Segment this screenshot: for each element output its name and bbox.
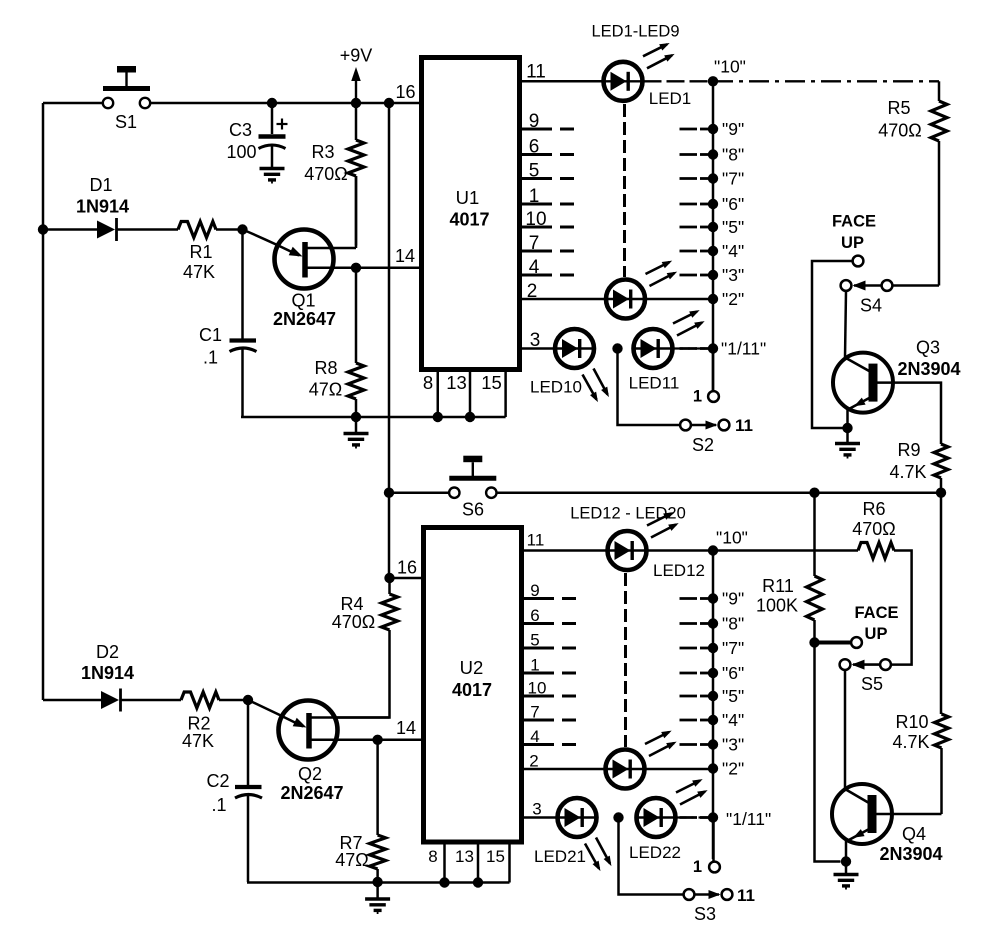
resistor R3 — [304, 103, 364, 246]
node die1 "9" — [680, 119, 745, 139]
svg-text:4017: 4017 — [449, 210, 489, 230]
switch S4 — [841, 280, 893, 315]
wire die2 output bus — [712, 551, 715, 860]
svg-text:LED1: LED1 — [649, 89, 692, 108]
pin U2-6 stub — [522, 606, 577, 625]
svg-text:S6: S6 — [462, 500, 484, 520]
wire LED22 to bus — [677, 816, 714, 818]
svg-text:R4: R4 — [340, 594, 363, 614]
svg-text:47Ω: 47Ω — [335, 850, 368, 870]
LED LED2 — [606, 280, 645, 319]
wire die1 ground rail — [241, 416, 506, 419]
pin U1-9 stub — [520, 111, 575, 132]
svg-text:1: 1 — [529, 186, 540, 207]
resistor R4 — [310, 578, 398, 718]
svg-text:R9: R9 — [897, 440, 920, 460]
svg-text:5: 5 — [530, 631, 539, 650]
LED LED21 — [558, 798, 597, 837]
svg-text:R1: R1 — [189, 242, 212, 262]
IC U1 4017 body — [422, 58, 520, 370]
svg-text:"10": "10" — [716, 528, 748, 548]
terminal 1 die1 — [693, 388, 719, 406]
wire "10" die2 to R6 — [713, 549, 858, 552]
pin U2-11 wire — [522, 531, 607, 551]
node die2 "4" — [680, 710, 745, 730]
label LED10 — [530, 378, 582, 397]
wire bus to terminal 1 die2 — [712, 818, 715, 862]
pin U2-8 — [428, 842, 444, 883]
node die2 "7" — [680, 638, 745, 658]
svg-text:"9": "9" — [722, 589, 744, 609]
node die2 "5" — [680, 686, 745, 706]
svg-text:13: 13 — [446, 372, 467, 393]
terminal 1 die2 — [693, 858, 720, 876]
svg-text:11: 11 — [737, 886, 755, 905]
wire top rail left segment — [43, 102, 104, 105]
diode D1 — [43, 175, 178, 241]
node die1 "2" — [708, 289, 744, 309]
svg-text:6: 6 — [530, 606, 539, 625]
LED12 light arrows — [647, 512, 679, 537]
resistor R6 — [852, 499, 896, 559]
svg-text:2N2647: 2N2647 — [280, 783, 343, 803]
node branch to lower section — [384, 98, 394, 108]
svg-text:"1/11": "1/11" — [721, 339, 766, 359]
wire LED2 to bus — [646, 298, 713, 301]
wire Q3 collector — [878, 383, 942, 444]
svg-text:7: 7 — [530, 703, 539, 722]
dashed wire LED1 to LED2 — [623, 104, 626, 277]
terminal FACE UP die2 — [815, 604, 899, 648]
svg-text:10: 10 — [528, 679, 547, 698]
resistor R1 — [178, 222, 243, 283]
svg-text:4.7K: 4.7K — [889, 462, 926, 482]
svg-text:+9V: +9V — [340, 46, 373, 66]
resistor R11 — [756, 493, 823, 643]
LED13 light arrows — [645, 731, 677, 756]
svg-text:Q4: Q4 — [902, 824, 926, 844]
node LED10/LED11 — [612, 343, 622, 353]
terminal FACE UP die1 — [832, 213, 876, 267]
svg-text:LED10: LED10 — [530, 378, 582, 397]
capacitor C1 — [199, 230, 257, 418]
pin U2-2 wire — [522, 752, 605, 771]
svg-text:4.7K: 4.7K — [892, 732, 929, 752]
wire die1 output bus — [712, 81, 715, 391]
svg-text:"5": "5" — [722, 217, 744, 237]
LED LED10 — [555, 329, 594, 368]
wire S4 to Q3 base — [845, 291, 846, 358]
wire die2 ground rail — [247, 881, 510, 884]
svg-text:C2: C2 — [206, 771, 229, 791]
node die2 "2" — [708, 759, 744, 779]
node die1 "8" — [680, 145, 745, 165]
switch S5 — [840, 659, 891, 694]
wire left bus vertical — [42, 103, 45, 700]
label LED12 — [653, 561, 705, 580]
pin U2-9 stub — [522, 581, 577, 600]
svg-text:"1/11": "1/11" — [726, 809, 771, 829]
svg-text:C3: C3 — [229, 120, 252, 140]
node R11 tap — [809, 488, 819, 498]
svg-text:1: 1 — [693, 858, 702, 876]
node left bus / D1 — [38, 224, 48, 234]
svg-text:11: 11 — [526, 62, 546, 83]
label LED1-LED9 — [591, 23, 679, 41]
svg-text:"4": "4" — [722, 710, 744, 730]
wire S5 to Q4 base — [844, 670, 847, 789]
node branch S6 — [384, 488, 394, 498]
node die2 "3" — [680, 735, 745, 755]
svg-text:"9": "9" — [722, 119, 744, 139]
pin U1-16 label — [395, 82, 415, 102]
svg-text:16: 16 — [395, 82, 415, 102]
svg-text:10: 10 — [525, 209, 546, 230]
svg-text:S5: S5 — [861, 674, 883, 694]
pin U1-4 stub — [520, 257, 575, 278]
svg-text:11: 11 — [527, 531, 545, 550]
svg-text:"2": "2" — [722, 289, 744, 309]
svg-text:LED22: LED22 — [629, 843, 681, 862]
capacitor C2 — [206, 700, 262, 882]
svg-text:8: 8 — [423, 372, 433, 393]
pin U2-3 wire — [522, 800, 557, 819]
svg-text:14: 14 — [395, 246, 415, 266]
svg-text:"10": "10" — [714, 57, 746, 77]
svg-text:"6": "6" — [722, 194, 744, 214]
svg-text:8: 8 — [428, 847, 437, 866]
node die2 "1/11" — [680, 809, 772, 829]
node die1 "10" — [708, 57, 746, 87]
node R7 ground rail — [372, 877, 382, 887]
pin U2-13 — [455, 842, 478, 883]
svg-text:"4": "4" — [722, 241, 744, 261]
svg-text:R11: R11 — [762, 576, 794, 596]
wire Q4 collector — [877, 813, 942, 816]
svg-text:UP: UP — [865, 625, 888, 643]
svg-text:D1: D1 — [89, 175, 112, 195]
node Q3 emitter — [842, 423, 852, 433]
wire FACE UP to Q3 emitter — [812, 261, 853, 428]
svg-text:S2: S2 — [692, 435, 714, 455]
svg-text:UP: UP — [841, 234, 864, 252]
switch S2 — [680, 416, 753, 455]
node Q1 base2 / R8 / U1 pin14 — [351, 246, 415, 273]
LED LED22 — [637, 798, 676, 837]
node die2 "8" — [680, 614, 745, 634]
node R1 / C1 / Q1 emitter — [237, 224, 247, 234]
resistor R9 — [889, 440, 948, 493]
svg-text:D2: D2 — [96, 642, 119, 662]
node pin13 rail — [465, 412, 475, 422]
label LED22 — [629, 843, 681, 862]
LED LED11 — [634, 329, 673, 368]
svg-text:.1: .1 — [203, 348, 218, 368]
svg-text:4017: 4017 — [452, 680, 492, 700]
svg-text:LED1-LED9: LED1-LED9 — [591, 23, 679, 41]
node die2 "9" — [680, 589, 745, 609]
resistor R10 — [892, 493, 948, 814]
pin U1-1 stub — [520, 186, 575, 207]
node R11 bottom — [809, 637, 819, 647]
LED21 light arrows — [585, 838, 611, 872]
pin U1-8 — [423, 370, 438, 418]
node R2 / C2 / Q2 emitter — [243, 695, 253, 705]
LED LED13 — [606, 750, 645, 789]
node pin8 rail — [433, 412, 443, 422]
svg-text:100K: 100K — [756, 596, 798, 616]
pin U2-4 stub — [522, 727, 577, 746]
pin U2-10 stub — [522, 679, 577, 698]
svg-text:Q3: Q3 — [916, 338, 940, 358]
svg-text:3: 3 — [532, 800, 541, 819]
node die2 "6" — [680, 663, 745, 683]
svg-text:470Ω: 470Ω — [332, 612, 376, 632]
wire "10" to R5 dash-dot — [713, 80, 939, 82]
wire LED12 to bus — [648, 549, 714, 552]
svg-text:LED12: LED12 — [653, 561, 705, 580]
label LED12-LED20 — [570, 505, 686, 523]
transistor Q2 2N2647 — [248, 700, 424, 803]
switch S3 — [684, 886, 755, 924]
svg-text:47K: 47K — [182, 731, 214, 751]
svg-text:15: 15 — [481, 372, 502, 393]
node pin8 rail die2 — [439, 877, 449, 887]
svg-text:2: 2 — [529, 752, 538, 771]
ground Q4 — [834, 862, 859, 890]
wire R11 to Q4 emitter — [815, 643, 841, 862]
LED LED1 — [604, 62, 643, 101]
svg-text:Q1: Q1 — [291, 291, 315, 311]
wire LED13 to bus — [646, 768, 714, 771]
wire LED1 to bus — [644, 80, 714, 82]
LED11 light arrows — [673, 310, 705, 335]
pin U2-5 stub — [522, 631, 577, 650]
node die1 "1/11" — [680, 339, 767, 359]
svg-text:47Ω: 47Ω — [309, 380, 342, 400]
svg-text:47K: 47K — [183, 262, 215, 282]
ground die1 — [344, 417, 369, 449]
svg-text:1N914: 1N914 — [81, 663, 134, 683]
svg-text:100: 100 — [226, 142, 256, 162]
svg-text:2N3904: 2N3904 — [879, 844, 942, 864]
svg-text:R8: R8 — [314, 358, 337, 378]
svg-text:4: 4 — [529, 257, 540, 278]
node Q2 base2 / R7 / U2 pin14 — [372, 718, 416, 745]
svg-text:1: 1 — [693, 388, 702, 406]
node LED21/LED22 — [613, 812, 623, 822]
svg-text:U2: U2 — [460, 657, 484, 678]
power +9V — [340, 46, 373, 104]
resistor R7 — [335, 740, 385, 882]
node die2 "10" — [708, 528, 748, 556]
svg-text:"8": "8" — [722, 614, 744, 634]
ground for C3 — [260, 169, 285, 184]
node C3 tap — [267, 98, 277, 108]
pin U1-3 wire — [520, 330, 555, 351]
LED2 light arrows — [646, 261, 678, 286]
node Q4 emitter — [841, 856, 851, 866]
capacitor C3 — [226, 103, 287, 168]
ground die2 — [365, 883, 390, 915]
pushbutton S6 — [449, 456, 496, 520]
LED22 light arrows — [676, 779, 708, 804]
svg-text:470Ω: 470Ω — [878, 121, 922, 141]
svg-text:4: 4 — [530, 727, 539, 746]
node R8 ground rail — [351, 412, 361, 422]
wire S6 rail — [496, 491, 941, 494]
wire branch to pin16 die2 — [388, 493, 391, 578]
svg-text:14: 14 — [396, 718, 416, 738]
svg-text:"3": "3" — [722, 735, 744, 755]
pin U1-5 stub — [520, 161, 575, 182]
svg-text:S4: S4 — [860, 296, 882, 316]
svg-text:470Ω: 470Ω — [852, 519, 896, 539]
node R9 bottom rail — [936, 488, 946, 498]
pin U1-10 stub — [520, 209, 575, 230]
pushbutton S1 — [103, 66, 150, 132]
svg-text:"7": "7" — [722, 169, 744, 189]
svg-text:R6: R6 — [862, 499, 885, 519]
pin U2-15 — [486, 842, 509, 883]
pin U1-11 wire — [520, 62, 603, 83]
svg-text:"3": "3" — [722, 265, 744, 285]
svg-text:R10: R10 — [895, 712, 928, 732]
IC U2 4017 body — [424, 528, 522, 843]
resistor R8 — [309, 268, 364, 417]
svg-text:7: 7 — [529, 233, 540, 254]
wire LED11 to bus — [673, 347, 713, 349]
ground Q3 — [835, 428, 860, 459]
svg-text:16: 16 — [397, 558, 417, 578]
wire S1 to U1 pin 16 — [151, 102, 422, 105]
wire junction to S3 — [619, 818, 684, 895]
resistor R2 — [181, 692, 248, 751]
node pin13 rail die2 — [473, 877, 483, 887]
pin U2-1 stub — [522, 656, 577, 675]
diode D2 — [81, 642, 181, 712]
svg-text:FACE: FACE — [832, 213, 876, 231]
wire R3 bottom to Q1 base1 — [355, 176, 358, 248]
svg-text:"5": "5" — [722, 686, 744, 706]
svg-text:R5: R5 — [887, 98, 910, 118]
svg-text:9: 9 — [529, 111, 540, 132]
label LED1 — [649, 89, 692, 108]
svg-text:"8": "8" — [722, 145, 744, 165]
pin U1-7 stub — [520, 233, 575, 254]
svg-text:"7": "7" — [722, 638, 744, 658]
pin U1-6 stub — [520, 137, 575, 158]
LED1 light arrows — [643, 43, 675, 68]
svg-text:FACE: FACE — [854, 604, 898, 622]
wire junction to S2 — [618, 349, 681, 426]
LED LED12 — [608, 531, 647, 570]
svg-text:1: 1 — [530, 656, 539, 675]
svg-text:LED11: LED11 — [629, 374, 680, 393]
svg-text:9: 9 — [530, 581, 539, 600]
svg-text:2: 2 — [527, 281, 538, 302]
svg-text:"2": "2" — [722, 759, 744, 779]
svg-text:C1: C1 — [199, 325, 222, 345]
wire R5 to S4 — [893, 284, 940, 287]
node U2 pin16 junction — [384, 558, 417, 584]
svg-text:11: 11 — [735, 416, 753, 435]
svg-text:.1: .1 — [211, 795, 226, 815]
svg-text:3: 3 — [530, 330, 541, 351]
transistor Q1 2N2647 — [243, 230, 422, 330]
resistor R5 — [878, 81, 947, 285]
svg-text:2N2647: 2N2647 — [273, 309, 336, 329]
svg-text:LED21: LED21 — [534, 847, 586, 866]
label LED21 — [534, 847, 586, 866]
pin U2-7 stub — [522, 703, 577, 722]
svg-text:470Ω: 470Ω — [304, 164, 348, 184]
svg-text:U1: U1 — [456, 187, 480, 208]
wire to S6 — [389, 491, 450, 494]
svg-text:1N914: 1N914 — [76, 197, 129, 217]
LED10 light arrows — [583, 369, 609, 403]
node die1 "6" — [680, 194, 745, 214]
svg-text:6: 6 — [529, 137, 540, 158]
label LED11 — [629, 374, 680, 393]
svg-text:S3: S3 — [694, 904, 716, 924]
transistor Q3 2N3904 — [833, 338, 961, 429]
wire to U2 pin 16 — [390, 577, 424, 580]
svg-text:S1: S1 — [115, 112, 137, 132]
node die1 "7" — [680, 169, 745, 189]
node +9V tap — [351, 98, 361, 108]
svg-text:5: 5 — [529, 161, 540, 182]
wire left bus to D2 — [43, 699, 101, 702]
svg-text:2N3904: 2N3904 — [897, 359, 960, 379]
transistor Q4 2N3904 — [832, 784, 943, 864]
node die1 "4" — [680, 241, 745, 261]
node die1 "5" — [680, 217, 745, 237]
pin U1-15 — [481, 370, 505, 418]
svg-text:15: 15 — [486, 847, 505, 866]
pin U1-2 wire — [520, 281, 606, 302]
wire R6 to S5 — [891, 551, 912, 665]
wire branch vertical to lower section — [388, 103, 391, 493]
svg-text:13: 13 — [455, 847, 474, 866]
wire bus to terminal 1 — [712, 349, 715, 392]
svg-text:R3: R3 — [311, 142, 334, 162]
dashed wire LED12 to LED13 — [624, 573, 627, 747]
svg-text:LED12 - LED20: LED12 - LED20 — [570, 505, 686, 523]
node die1 "3" — [680, 265, 745, 285]
svg-text:"6": "6" — [722, 663, 744, 683]
svg-text:Q2: Q2 — [298, 764, 322, 784]
pin U1-13 — [446, 370, 470, 418]
